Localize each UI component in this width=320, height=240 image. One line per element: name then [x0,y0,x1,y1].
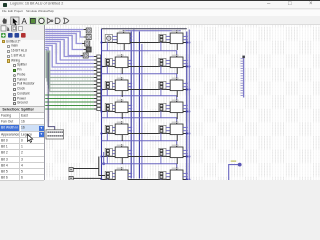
wire: row 6 pin stubs [161,150,170,163]
title bar [0,1,320,9]
wire: row 5 bus stubs [128,126,132,131]
wire: row 7 bus stubs [128,172,132,177]
pin group row 5 [105,125,112,133]
wire: top horizontal interconnect (light) [122,30,180,32]
pin group row 4 [105,103,112,111]
wire: row 2 bus stubs [183,59,188,64]
wire: probe drop [228,165,239,180]
wire: row 4 data bus horizontal [101,110,186,112]
subcircuit 1-BIT-ALU row 6 [115,144,128,164]
subcircuit 1-BIT-ALU row 1 [170,30,183,50]
wire: row 1 carry interconnect [101,51,176,57]
menu bar [0,10,320,17]
OR gate tool [64,18,69,23]
wire: row 1 bus stubs [183,35,188,40]
wire: row 3 bus stubs [183,82,188,87]
input pin tool [29,17,37,25]
pin P20 [69,168,73,172]
pin group row 6 [159,148,166,156]
wire: row 1 bus stubs [130,35,132,40]
attribute table [0,113,44,180]
subcircuit 1-BIT-ALU row 2 [115,54,128,74]
pin group row 2 [105,58,112,66]
wire: row 6 pin stubs [107,150,115,163]
pin group row 1 [159,34,166,42]
wire: row 3 pin stubs [161,83,170,95]
subcircuit 1-BIT-ALU row 3 [170,77,183,97]
pin group row 4 [159,103,166,111]
wire: bottom black elbow [99,156,105,175]
wire: row 3 data bus horizontal [101,89,186,91]
wire: row 3 carry interconnect [101,96,176,102]
bus: left spine vertical [100,29,102,179]
wire: row 4 pin stubs [161,105,170,117]
wire: row 6 carry interconnect [101,164,176,170]
wire: row 2 data bus horizontal [101,66,186,68]
junction dots [100,41,190,180]
pin group row 1 [105,34,112,42]
splitter SP2: 16-bit vertical fan-out [240,56,244,98]
bus: vertical x141.5 [141,44,143,178]
node: solder dot [238,163,242,167]
wire: row 4 pin stubs [107,105,115,117]
LED matrix display D1 [46,130,64,139]
subcircuit 1-BIT-ALU row 5 [115,121,128,141]
pin group row 5 [159,125,166,133]
wire: row 4 bus stubs [128,104,132,109]
poke tool (hand) [2,18,6,24]
bus: vertical x189 [188,30,190,179]
circuit tree [0,40,44,107]
bus: vertical x186.5 [186,32,188,179]
wire: row 4 bus stubs [183,104,188,109]
wire: row 2 pin stubs [161,60,170,73]
attribute header [0,106,44,113]
wire: row 6 data bus horizontal [101,155,186,157]
edit tool (arrow, selected) [11,17,19,25]
wire: bottom black run 2 [73,177,101,179]
wire: row 2 pin stubs [107,60,115,73]
wire: row 7 pin stubs [107,173,115,183]
wire: row 1 data bus horizontal [101,42,186,44]
pin P21 [69,176,73,180]
pin group row 7 [159,171,166,179]
explorer toolbar [0,32,44,39]
wire: row 5 carry interconnect [101,141,176,147]
subcircuit 1-BIT-ALU row 6 [170,144,183,164]
wire: green value-0 wires bits 11-15 [45,95,96,109]
wire: row 1 pin stubs [161,36,170,50]
wire: to LED matrix [48,53,54,130]
AND gate tool [55,18,60,23]
splitter SP1: 16-pin fan-in column [97,55,101,110]
bus: vertical x131 [130,32,132,179]
subcircuit 1-BIT-ALU row 7 [115,167,128,187]
wire: row 3 bus stubs [128,82,132,87]
subcircuit 1-BIT-ALU row 3 [115,77,128,97]
output pin tool [38,17,46,25]
wire: row 3 pin stubs [107,83,115,95]
subcircuit 1-BIT-ALU row 5 [170,121,183,141]
pin column: 5 output pins (circle) [83,28,91,58]
wire: row 5 pin stubs [107,127,115,140]
schematic canvas [45,25,320,180]
bus: vertical x133.5 [133,30,135,179]
subcircuit 1-BIT-ALU row 4 [115,99,128,119]
wire: row 1 pin stubs [107,36,117,50]
junction dot bottom [102,162,105,165]
wire: bottom purple vertical [102,152,104,164]
main toolbar [0,16,320,25]
wire: row 7 pin stubs [161,173,170,183]
pin group row 2 [159,58,166,66]
subcircuit 1-BIT-ALU row 2 [170,54,183,74]
subcircuit 1-BIT-ALU row 4 [170,99,183,119]
wire: row 5 data bus horizontal [101,132,186,134]
wire: row 7 bus stubs [183,172,188,177]
NOT gate tool [47,18,51,23]
wire: row 5 pin stubs [161,127,170,140]
wire: top horizontal interconnect (dark) [101,28,186,30]
wire: row 6 bus stubs [128,149,132,154]
wire: row 5 bus stubs [183,126,188,131]
mouse cursor [27,134,34,143]
subcircuit 1-BIT-ALU row 1 [117,30,130,50]
pin group row 3 [159,81,166,89]
wire: row 2 bus stubs [128,59,132,64]
wire: row 6 bus stubs [183,149,188,154]
pin group row 7 [105,171,112,179]
wire: row 7 data bus horizontal [101,178,186,180]
project toolbar [0,25,44,32]
wire: bottom black run 1 [73,167,98,169]
bus: vertical x139 [138,32,140,179]
pin group row 3 [105,81,112,89]
label: value 0000 [230,160,235,162]
pin group row 6 [105,148,112,156]
wire bundle: 16-bit input fan-out staircase [45,30,96,92]
subcircuit 1-BIT-ALU row 7 [170,167,183,187]
wire: row 2 carry interconnect [101,74,176,80]
wire: row 4 carry interconnect [101,118,176,124]
